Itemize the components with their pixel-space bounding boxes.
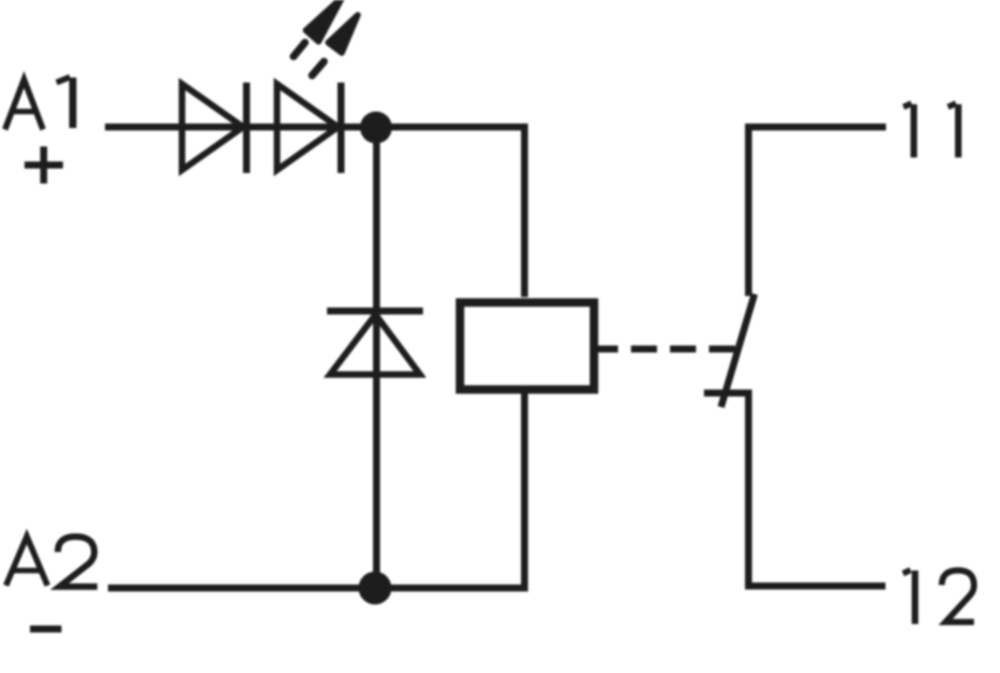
LED V2 cathode bar [338,83,345,174]
wire A1 horizontal through diodes to coil corner [105,127,525,297]
dashed actuator link [592,346,735,353]
LED arrow 2 [328,15,358,53]
label 12 [903,570,974,624]
label 11 [904,103,959,157]
label A1 [5,77,73,130]
junction node bottom [359,572,392,605]
diode V1 cathode bar [243,83,250,174]
flyback diode V3 triangle [330,315,420,375]
wire A2 bottom horizontal to coil bottom corner [108,392,525,588]
flyback diode V3 cathode bar [327,308,423,315]
wire vertical branch through flyback diode [373,127,380,585]
junction node top [360,112,392,144]
label plus [25,147,64,184]
LED V2 triangle [277,84,338,170]
contact blade K1 (NC) [721,294,755,407]
wire fixed contact bar down to terminal 12 [704,393,886,586]
label minus [30,626,62,633]
wire terminal 11 to contact pivot [749,127,887,296]
diode V1 triangle [182,84,243,170]
LED arrow 1 [306,0,343,42]
relay coil K1 box [460,303,594,390]
label A2 [6,537,97,587]
